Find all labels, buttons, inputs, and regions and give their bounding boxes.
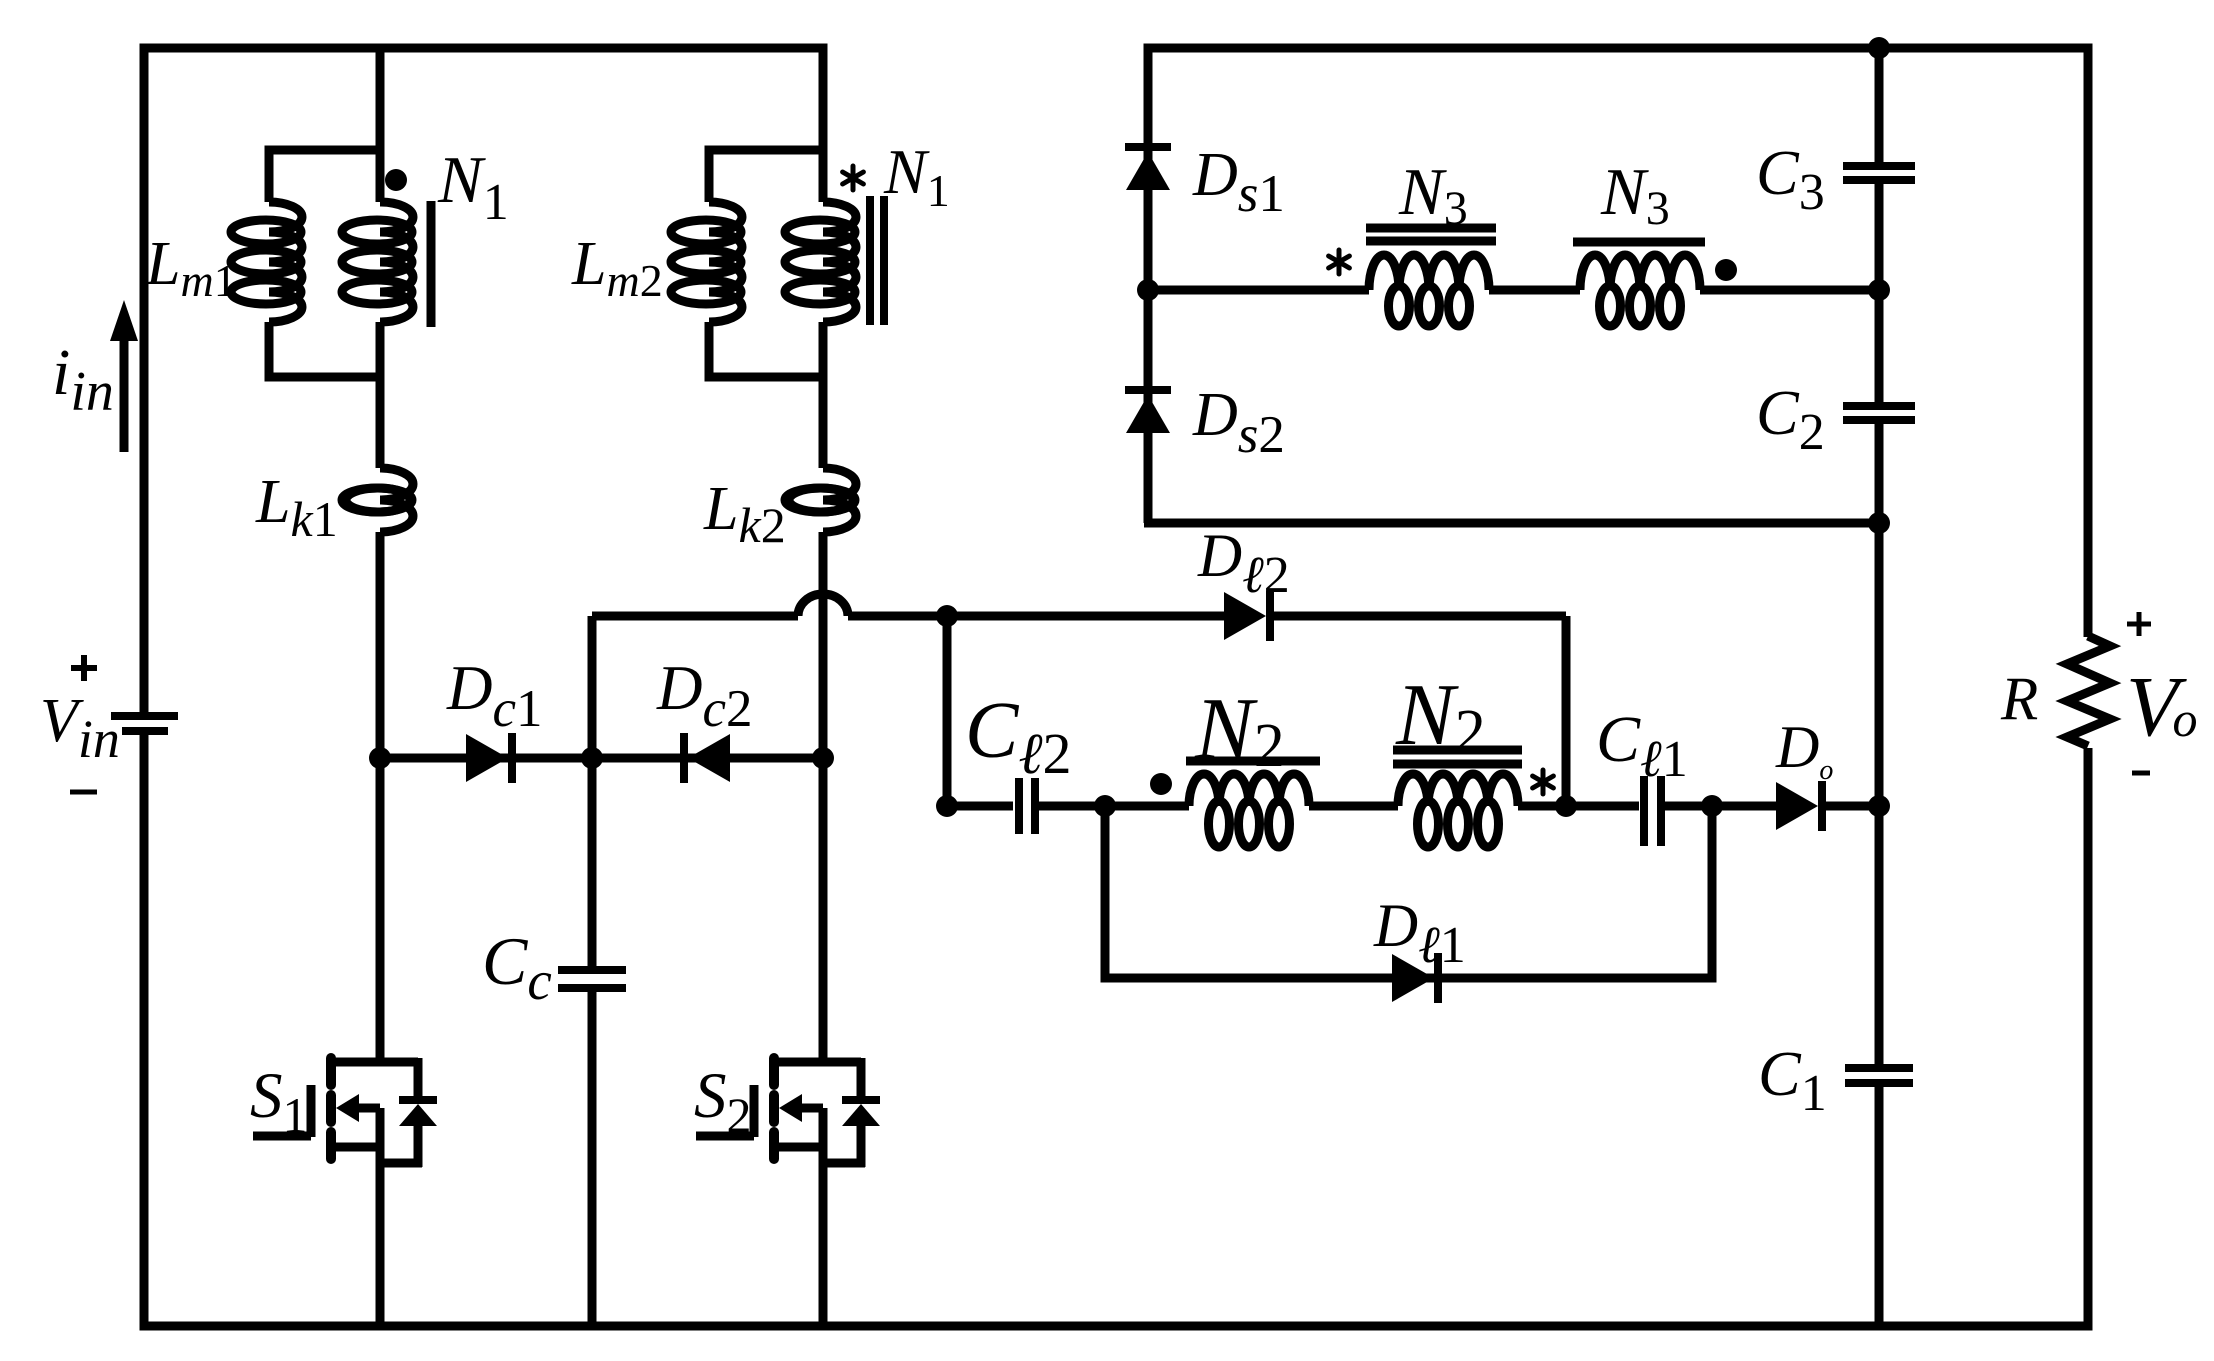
svg-text:Vo: Vo xyxy=(2126,658,2198,754)
svg-text:Cc: Cc xyxy=(482,923,552,1011)
svg-text:N2: N2 xyxy=(1194,681,1285,780)
svg-text:N1: N1 xyxy=(883,136,950,216)
svg-text:N3: N3 xyxy=(1600,155,1670,235)
svg-text:Vin: Vin xyxy=(40,687,120,769)
svg-text:Lm2: Lm2 xyxy=(571,230,663,306)
svg-text:N1: N1 xyxy=(437,143,509,231)
svg-text:Dℓ1: Dℓ1 xyxy=(1373,893,1466,974)
svg-text:Lk2: Lk2 xyxy=(703,475,786,553)
svg-text:R: R xyxy=(2000,666,2038,733)
svg-text:Lm1: Lm1 xyxy=(145,230,237,306)
svg-text:Dℓ2: Dℓ2 xyxy=(1197,523,1290,604)
svg-text:Dc1: Dc1 xyxy=(446,653,543,738)
svg-text:C3: C3 xyxy=(1756,137,1825,221)
svg-text:N2: N2 xyxy=(1395,667,1486,766)
svg-text:Cℓ2: Cℓ2 xyxy=(965,687,1072,786)
svg-text:N3: N3 xyxy=(1398,155,1468,235)
svg-text:S2: S2 xyxy=(694,1060,752,1143)
svg-text:Ds2: Ds2 xyxy=(1192,381,1285,464)
svg-text:Ds1: Ds1 xyxy=(1192,141,1285,223)
svg-text:S1: S1 xyxy=(250,1060,308,1143)
svg-text:Dc2: Dc2 xyxy=(656,653,753,738)
svg-text:C1: C1 xyxy=(1758,1038,1827,1122)
svg-text:Lk1: Lk1 xyxy=(255,468,338,547)
svg-text:C2: C2 xyxy=(1756,377,1825,461)
svg-text:Cℓ1: Cℓ1 xyxy=(1596,703,1688,788)
svg-text:iin: iin xyxy=(52,336,114,423)
svg-text:Do: Do xyxy=(1775,714,1833,786)
